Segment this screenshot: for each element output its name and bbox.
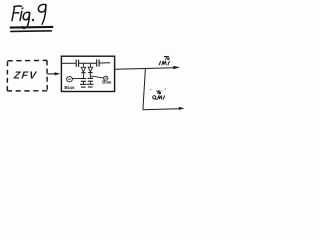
coupler box U1: [61, 56, 114, 91]
svg-text:ZFV: ZFV: [12, 71, 38, 82]
figure label Fig. 9: [11, 4, 47, 28]
capacitor C3 (on left branch): [81, 79, 87, 85]
capacitor C4 (on right branch): [88, 78, 94, 84]
wire: left bias feed: [72, 78, 80, 80]
capacitor C2 (series): [97, 59, 99, 66]
block ZFV dashed box: [7, 60, 47, 91]
diode D2: [88, 63, 92, 78]
svg-text:Bias: Bias: [102, 80, 112, 85]
wire: top rail right segment: [99, 62, 110, 64]
label ZFV: [12, 71, 38, 82]
label To QMI: [153, 91, 165, 100]
wire: bottom output to QMI with arrow: [143, 107, 185, 110]
svg-text:Bias: Bias: [64, 85, 74, 91]
wire: input arrow from ZFV to coupler box: [47, 72, 60, 75]
wire: top rail middle segment: [79, 62, 97, 64]
wire: branch down to QMI: [143, 69, 146, 110]
stray scan specks: [150, 89, 166, 92]
wire: output to IMI with arrow: [115, 66, 180, 69]
capacitor C6 (lower, right branch): [87, 84, 94, 87]
wire: top rail left segment: [61, 62, 75, 64]
capacitor C5 (lower, left branch): [80, 84, 87, 87]
wire: right bias feed: [91, 76, 104, 78]
bias source B1: [67, 77, 73, 82]
bias source B2: [104, 76, 108, 80]
diode D1: [81, 63, 85, 78]
label To IMI: [159, 56, 169, 65]
capacitor C1 (series): [76, 60, 78, 67]
